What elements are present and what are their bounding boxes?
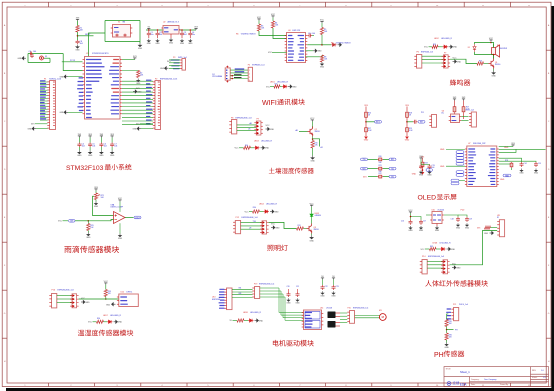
svg-text:VCC: VCC: [271, 14, 276, 16]
svg-text:GND: GND: [457, 61, 462, 63]
svg-text:Sheet:: Sheet:: [532, 376, 538, 379]
svg-text:P21: P21: [453, 304, 456, 306]
svg-text:10K: 10K: [101, 197, 105, 199]
svg-text:Your Company: Your Company: [484, 378, 496, 381]
svg-text:TXD/RXD SWDIO: TXD/RXD SWDIO: [241, 34, 257, 36]
svg-text:3V3: 3V3: [453, 97, 457, 99]
svg-text:C23: C23: [336, 286, 339, 288]
svg-text:104: 104: [33, 51, 36, 53]
svg-text:VCC: VCC: [104, 281, 109, 283]
svg-text:GND: GND: [419, 174, 424, 176]
svg-text:GND: GND: [295, 302, 300, 304]
ground (P2): [137, 127, 141, 130]
svg-text:VBAT: VBAT: [505, 174, 509, 177]
svg-text:GND: GND: [408, 230, 413, 232]
svg-text:LED4: LED4: [259, 204, 264, 206]
svg-text:R12: R12: [433, 44, 436, 46]
svg-text:PH: PH: [434, 352, 444, 359]
svg-text:C16: C16: [401, 221, 404, 223]
svg-text:GND: GND: [412, 174, 417, 176]
capacitor C2: [157, 29, 159, 31]
power flag 3V3 (pot): [95, 189, 97, 191]
module title DHT: [78, 330, 134, 336]
svg-text:ESP8266-E06_1x4: ESP8266-E06_1x4: [353, 308, 368, 310]
svg-text:3V3: 3V3: [364, 105, 368, 107]
svg-text:GND: GND: [160, 68, 165, 70]
terminal with arrows P13: [262, 221, 267, 234]
svg-text:2: 2: [249, 73, 250, 75]
svg-text:TX0: TX0: [362, 159, 365, 161]
svg-text:3V3: 3V3: [511, 143, 515, 145]
module title rain: [64, 246, 119, 253]
net labels on wires: [235, 69, 245, 73]
svg-text:VCC: VCC: [245, 211, 250, 213]
ground (DHT): [112, 303, 116, 306]
svg-text:D: D: [548, 169, 550, 171]
decoupling cap C6: [100, 136, 102, 138]
svg-text:GND: GND: [405, 140, 410, 142]
svg-text:10K: 10K: [90, 227, 94, 229]
svg-text:3V3: 3V3: [94, 187, 98, 189]
svg-text:U10: U10: [432, 209, 435, 211]
svg-text:IN1: IN1: [239, 288, 242, 290]
svg-text:Drawn By:: Drawn By:: [500, 384, 509, 386]
svg-text:10u: 10u: [192, 34, 195, 36]
svg-text:LED8: LED8: [243, 312, 248, 314]
capacitor C9 (reset): [30, 52, 31, 56]
resistor R36: [445, 333, 448, 340]
svg-text:P20: P20: [348, 308, 351, 310]
svg-text:10K: 10K: [140, 75, 144, 77]
svg-text:3V3: 3V3: [88, 134, 92, 136]
svg-text:1/1: 1/1: [543, 377, 546, 379]
ground (MCU VSS): [64, 75, 68, 78]
svg-text:AMS1117-3.3: AMS1117-3.3: [168, 21, 179, 24]
svg-text:GND: GND: [106, 305, 111, 307]
capacitor C10: [308, 34, 313, 38]
svg-text:VCC: VCC: [271, 224, 276, 226]
svg-text:GND: GND: [364, 140, 369, 142]
svg-text:3: 3: [249, 77, 250, 79]
svg-text:GND: GND: [118, 238, 123, 240]
svg-text:R20: R20: [379, 156, 382, 158]
svg-text:GND: GND: [504, 147, 509, 149]
svg-text:GND: GND: [86, 237, 91, 239]
svg-text:C19: C19: [469, 219, 472, 221]
svg-text:GND: GND: [118, 322, 123, 324]
svg-text:D: D: [4, 169, 6, 171]
capacitor C11: [413, 120, 418, 124]
svg-text:A0: A0: [250, 122, 252, 125]
svg-text:VCC: VCC: [235, 148, 240, 150]
resistor R4: [271, 21, 274, 28]
svg-text:3V3: 3V3: [136, 124, 139, 126]
svg-text:GND: GND: [274, 211, 279, 213]
svg-text:VCC: VCC: [118, 198, 123, 200]
svg-text:C18: C18: [451, 219, 454, 221]
svg-text:R6: R6: [236, 34, 238, 36]
svg-text:104: 104: [82, 146, 85, 148]
ground (P1): [32, 127, 36, 130]
right side wires: [499, 148, 513, 150]
terminal with arrows P17: [72, 294, 77, 308]
svg-text:X1: X1: [118, 21, 120, 23]
svg-text:GND: GND: [27, 128, 32, 130]
svg-text:3V3: 3V3: [31, 124, 34, 126]
potentiometer RP1: [94, 193, 97, 200]
svg-text:P3: P3: [173, 57, 175, 59]
svg-text:3V3: 3V3: [78, 134, 82, 136]
svg-text:GND: GND: [286, 302, 291, 304]
ground (crystal): [139, 42, 141, 44]
left net labels: [456, 151, 464, 154]
svg-text:LED7: LED7: [103, 315, 108, 317]
svg-text:S1: S1: [45, 56, 47, 58]
svg-text:PH: PH: [455, 330, 458, 332]
svg-text:S8050: S8050: [315, 131, 320, 133]
svg-text:RST: RST: [420, 122, 423, 124]
svg-text:G: G: [4, 313, 6, 315]
svg-text:C: C: [548, 121, 550, 123]
wires to terminal: [427, 261, 443, 263]
svg-text:3V3: 3V3: [462, 97, 466, 99]
svg-text:10K: 10K: [324, 31, 328, 33]
svg-text:E: E: [4, 217, 6, 219]
svg-text:GND: GND: [17, 58, 22, 60]
svg-text:2K: 2K: [368, 115, 371, 117]
svg-text:VCC: VCC: [266, 125, 271, 127]
wire collector: [493, 55, 495, 59]
svg-text:3V3: 3V3: [194, 27, 198, 29]
buzzer B1: [492, 45, 500, 57]
iref resistor R28: [499, 163, 510, 165]
svg-text:GND: GND: [453, 47, 458, 49]
svg-text:IO0: IO0: [428, 170, 431, 172]
svg-text:I2C: I2C: [441, 113, 444, 115]
capacitor C4: [190, 29, 192, 31]
power flag 3V3 (NRST pullup): [77, 19, 79, 21]
svg-text:GND: GND: [136, 83, 141, 85]
svg-text:P14: P14: [422, 256, 425, 258]
svg-text:LED-0805_R: LED-0805_R: [440, 242, 452, 244]
vcc wire right: [512, 145, 514, 147]
wire to transistor: [450, 59, 477, 63]
sheet edge shadow: [551, 6, 554, 391]
svg-text:GND: GND: [99, 155, 104, 157]
svg-text:C17: C17: [423, 221, 426, 223]
power flag 5V: [148, 28, 150, 30]
svg-text:ESP8266-E06_1x16: ESP8266-E06_1x16: [160, 78, 177, 80]
svg-text:104: 104: [184, 34, 187, 36]
svg-text:GND: GND: [427, 174, 432, 176]
series resistor row 2: [361, 167, 368, 170]
svg-text:3V3: 3V3: [136, 88, 139, 90]
resistor R1 10K: [76, 26, 79, 33]
ground (Q3): [311, 234, 313, 236]
svg-text:STM32F103: STM32F103: [66, 165, 104, 172]
svg-text:ESP-12F: ESP-12F: [293, 30, 302, 32]
svg-text:TITLE:: TITLE:: [446, 369, 452, 371]
net labels on wires: [146, 80, 152, 125]
svg-text:GND: GND: [180, 43, 185, 45]
svg-text:ESP8266_1x4: ESP8266_1x4: [252, 64, 264, 66]
svg-text:ESP8266_1x3: ESP8266_1x3: [421, 51, 433, 53]
capacitor C1: [147, 30, 151, 38]
svg-text:WIFI: WIFI: [262, 100, 277, 107]
wire pot wiper to opamp: [93, 196, 114, 215]
svg-text:GND: GND: [75, 50, 80, 52]
svg-text:P5: P5: [248, 64, 250, 66]
svg-text:REV:: REV:: [532, 370, 537, 372]
svg-text:R14: R14: [245, 145, 248, 147]
svg-text:GND: GND: [500, 179, 505, 181]
power flag VCC (light): [311, 205, 313, 207]
bus wires to driver: [260, 288, 304, 313]
svg-text:P7: P7: [444, 53, 446, 55]
svg-text:10K: 10K: [379, 162, 383, 164]
svg-text:R30: R30: [253, 207, 256, 209]
svg-text:GND: GND: [270, 129, 275, 131]
wires to terminal: [415, 55, 417, 57]
svg-text:U14: U14: [320, 307, 323, 309]
svg-text:F: F: [4, 265, 6, 267]
svg-text:LED2: LED2: [434, 38, 439, 40]
svg-text:LED-0805_R: LED-0805_R: [277, 81, 289, 83]
svg-text:U12: U12: [121, 292, 124, 294]
svg-text:RX1: RX1: [391, 159, 394, 161]
svg-text:VCC: VCC: [58, 221, 63, 223]
svg-text:ESP8266-E06_1x3: ESP8266-E06_1x3: [236, 118, 252, 120]
left caps C12 C13: [420, 158, 422, 160]
svg-text:5V: 5V: [230, 320, 233, 322]
svg-text:D1: D1: [468, 47, 470, 49]
caps right C22 C23: [322, 278, 324, 280]
svg-text:U4: U4: [288, 30, 290, 32]
svg-text:GND: GND: [465, 227, 470, 229]
svg-text:OLED_1x4: OLED_1x4: [465, 110, 474, 112]
svg-text:VCC: VCC: [266, 86, 271, 88]
svg-text:PH2.0_1x4: PH2.0_1x4: [459, 304, 468, 306]
boot resistor R2: [122, 70, 138, 72]
right caps C14 C15: [499, 158, 522, 162]
wire reset to MCU: [41, 63, 43, 65]
module title infrared: [425, 280, 487, 286]
wire: [25, 54, 27, 63]
svg-text:GND: GND: [292, 86, 297, 88]
svg-text:A1: A1: [321, 146, 323, 149]
svg-text:R21: R21: [379, 165, 382, 167]
wire: [77, 21, 79, 26]
svg-text:GND: GND: [155, 43, 160, 45]
svg-text:VCC: VCC: [424, 47, 429, 49]
svg-text:10K: 10K: [275, 25, 279, 27]
wires to OLED header: [461, 116, 468, 118]
svg-text:C15: C15: [538, 163, 541, 165]
wire sensor output down: [470, 231, 497, 265]
svg-text:GND: GND: [188, 43, 193, 45]
push button S1: [40, 56, 44, 60]
svg-text:R11: R11: [275, 84, 278, 86]
svg-text:P12: P12: [236, 217, 239, 219]
connector P11 (aux 4pin): [432, 115, 437, 128]
svg-text:XC6206: XC6206: [438, 209, 445, 211]
svg-text:TZWDQ_1x16: TZWDQ_1x16: [49, 78, 61, 80]
svg-text:ESP8266: ESP8266: [212, 299, 220, 301]
svg-text:GND: GND: [320, 66, 325, 68]
svg-text:ESP8266-E06_1x4: ESP8266-E06_1x4: [259, 284, 274, 286]
svg-text:LED-0805_R: LED-0805_R: [441, 38, 453, 40]
crystal circuit X1: [105, 20, 140, 22]
svg-text:VCC: VCC: [320, 20, 325, 22]
svg-text:104: 104: [312, 33, 315, 35]
ground (reset): [22, 57, 26, 60]
svg-text:EDA: EDA: [460, 382, 467, 386]
svg-text:LED-0805_R: LED-0805_R: [110, 315, 122, 317]
power flag VCC (R3): [258, 19, 260, 21]
wire to base resistor: [269, 222, 297, 228]
svg-text:DHT11: DHT11: [127, 292, 133, 294]
svg-text:3V3: 3V3: [133, 56, 137, 58]
svg-text:R22: R22: [379, 173, 382, 175]
svg-text:TXD/RXD SWDIO: TXD/RXD SWDIO: [336, 43, 352, 45]
svg-text:104: 104: [80, 43, 83, 45]
module title light: [267, 245, 287, 251]
wire collector: [311, 220, 313, 224]
svg-text:GND: GND: [85, 302, 90, 304]
wire aux: [435, 116, 440, 118]
svg-text:TX1: TX1: [391, 168, 394, 170]
svg-text:VCC: VCC: [408, 210, 413, 212]
pull-up resistor R33: [105, 283, 107, 285]
svg-text:Sheet_1: Sheet_1: [460, 370, 470, 374]
svg-text:3V3: 3V3: [76, 18, 80, 20]
svg-text:C9: C9: [29, 51, 31, 53]
ground (opamp): [119, 223, 121, 233]
svg-text:Company:: Company:: [471, 379, 480, 381]
transistor circuit (soil A0): [311, 120, 313, 122]
svg-text:PU2: PU2: [461, 210, 465, 212]
svg-text:VCC: VCC: [421, 249, 426, 251]
svg-text:GND: GND: [456, 227, 461, 229]
wire NRST node: [77, 32, 79, 40]
divider node: [446, 327, 448, 334]
svg-text:10u: 10u: [151, 34, 154, 36]
svg-text:1.0: 1.0: [541, 370, 544, 372]
svg-text:C14: C14: [524, 163, 527, 165]
svg-text:LED-0805_R: LED-0805_R: [261, 141, 273, 143]
wire emitter node to right: [312, 138, 314, 140]
series resistor row 1: [361, 158, 368, 161]
transistor Q3: [307, 224, 312, 234]
terminal with arrows P15: [443, 260, 448, 274]
svg-text:ESP8266-E06_1x3: ESP8266-E06_1x3: [428, 256, 444, 258]
crystal caps: [116, 34, 127, 37]
svg-text:A0: A0: [296, 129, 298, 132]
svg-text:S8050: S8050: [314, 229, 319, 231]
svg-text:U7: U7: [468, 143, 470, 145]
net port arrow: [331, 43, 337, 46]
svg-text:VCC: VCC: [88, 322, 93, 324]
wires to 1x4: [232, 289, 253, 297]
I2C pullups R26 R27: [454, 99, 456, 101]
power flag VCC (R4): [272, 16, 274, 18]
svg-text:B1: B1: [497, 45, 499, 47]
svg-text:STM32F103C8T6: STM32F103C8T6: [92, 53, 109, 55]
svg-text:GND: GND: [310, 161, 315, 163]
motor outputs blocks: [328, 312, 336, 328]
svg-text:LM393_COMP: LM393_COMP: [111, 207, 124, 209]
right lower labels: [503, 174, 511, 177]
wire data to DHT: [79, 298, 99, 300]
svg-text:BUZZER: BUZZER: [500, 48, 508, 50]
svg-text:M1: M1: [379, 310, 382, 312]
svg-text:S8050: S8050: [495, 64, 500, 66]
module title buzzer: [450, 79, 471, 85]
transistor Q1 S8050: [489, 59, 494, 69]
svg-text:3V3: 3V3: [477, 227, 480, 229]
ground (PH): [446, 340, 448, 343]
svg-text:GND: GND: [147, 43, 152, 45]
svg-text:10K: 10K: [80, 30, 84, 32]
title block: [444, 367, 549, 387]
svg-text:R32: R32: [430, 246, 433, 248]
svg-text:P1: P1: [44, 78, 46, 80]
svg-text:2K: 2K: [409, 115, 412, 117]
svg-text:P16: P16: [52, 289, 55, 291]
svg-text:10K: 10K: [324, 59, 328, 61]
svg-text:C: C: [4, 121, 6, 123]
transistor Q2: [308, 127, 313, 137]
svg-text:GND: GND: [320, 295, 325, 297]
svg-text:3.3K: 3.3K: [409, 130, 413, 132]
ground (MCU bottom left): [64, 111, 68, 114]
svg-text:Date:: Date:: [471, 383, 476, 386]
ground (pot): [95, 200, 97, 202]
svg-text:GND: GND: [259, 320, 264, 322]
capacitor C8 104: [76, 40, 80, 44]
svg-text:GND: GND: [435, 230, 440, 232]
svg-text:OLED: OLED: [418, 195, 437, 202]
wires P4 to P5: [230, 69, 249, 71]
svg-text:10K: 10K: [449, 337, 453, 339]
wire to divider: [447, 314, 449, 320]
svg-text:10K: 10K: [449, 323, 453, 325]
svg-text:H: H: [4, 361, 6, 363]
svg-text:U2: U2: [163, 22, 165, 24]
wires: [241, 222, 262, 224]
ground: [76, 45, 79, 49]
easyeda logo: [447, 382, 451, 386]
svg-text:P6: P6: [417, 51, 419, 53]
svg-text:104: 104: [92, 146, 95, 148]
svg-text:VCC: VCC: [489, 38, 494, 40]
ground (soil divider): [312, 148, 314, 156]
svg-text:VCC: VCC: [309, 203, 314, 205]
svg-text:10K: 10K: [108, 293, 112, 295]
svg-text:3V3: 3V3: [100, 134, 104, 136]
module title soil: [269, 168, 314, 174]
svg-text:B: B: [4, 73, 6, 75]
svg-text:L9110S: L9110S: [326, 307, 333, 309]
svg-text:E: E: [548, 217, 550, 219]
svg-text:NRST: NRST: [85, 34, 91, 36]
svg-text:GND: GND: [132, 128, 137, 130]
svg-text:104: 104: [114, 146, 117, 148]
svg-text:VCC: VCC: [257, 17, 262, 19]
svg-text:PROGRAM: PROGRAM: [212, 75, 222, 78]
svg-text:G: G: [548, 313, 550, 315]
regulator caps left: [410, 212, 412, 214]
